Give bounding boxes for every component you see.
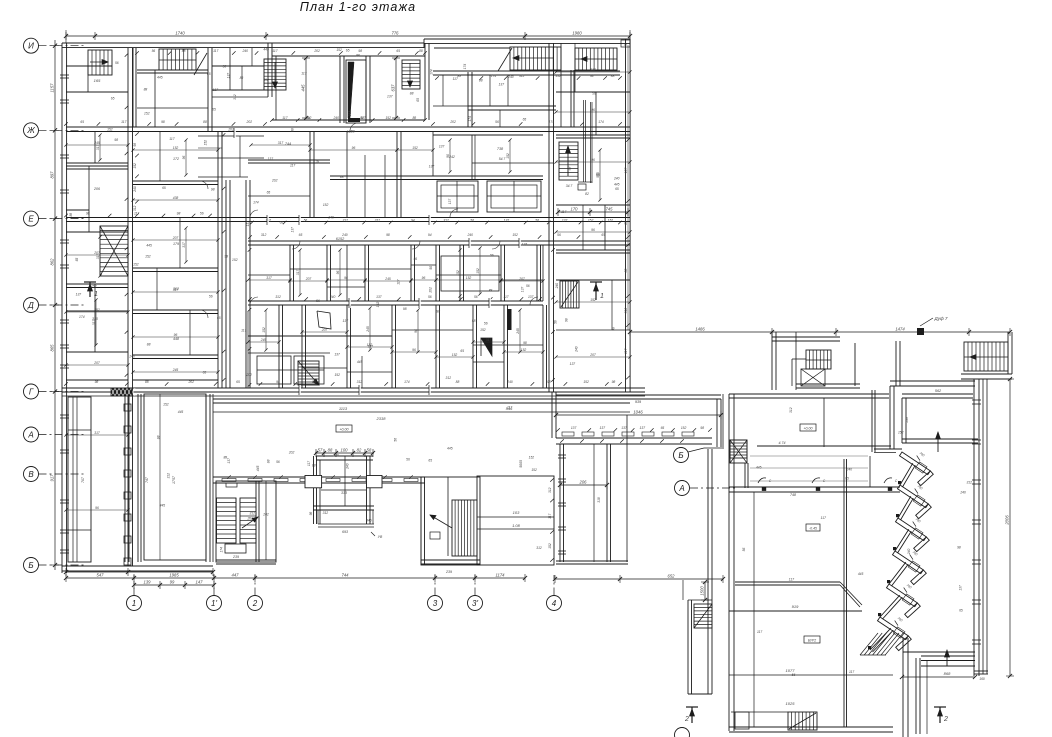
svg-text:УВ: УВ xyxy=(378,535,383,539)
svg-text:445: 445 xyxy=(447,446,453,450)
svg-text:98: 98 xyxy=(161,120,165,124)
svg-text:165: 165 xyxy=(94,78,101,83)
svg-text:152: 152 xyxy=(456,270,460,276)
svg-text:56: 56 xyxy=(209,295,213,299)
sawtooth tooth 1 side wall xyxy=(918,471,934,486)
south rooms 3-4 xyxy=(477,476,554,565)
stair S1 top-left xyxy=(88,50,112,75)
big room A with vertical dim xyxy=(272,55,425,57)
pavilion lower part xyxy=(317,510,319,524)
svg-text:776: 776 xyxy=(392,31,400,36)
sawtooth tooth 5 column xyxy=(878,613,881,616)
svg-text:117: 117 xyxy=(561,210,566,214)
svg-text:447: 447 xyxy=(232,573,240,578)
svg-text:137: 137 xyxy=(958,585,962,591)
wall axis 1 vertical xyxy=(127,48,129,566)
svg-text:В: В xyxy=(28,470,34,479)
sawtooth tooth 1 column xyxy=(898,481,901,484)
south bottom dim lines xyxy=(66,577,525,579)
svg-text:Е: Е xyxy=(28,214,34,223)
main block west wall xyxy=(728,394,730,731)
svg-text:96: 96 xyxy=(174,333,178,337)
svg-text:245: 245 xyxy=(172,368,179,372)
svg-text:56: 56 xyxy=(592,91,596,95)
svg-text:137: 137 xyxy=(571,426,577,430)
svg-text:137: 137 xyxy=(268,157,274,161)
axis bubble 1' xyxy=(207,596,222,611)
svg-text:202: 202 xyxy=(288,451,295,455)
svg-text:65: 65 xyxy=(207,72,211,76)
svg-text:96: 96 xyxy=(352,146,356,150)
stair S9 right column xyxy=(560,281,579,308)
right wing top dim line xyxy=(630,331,1010,333)
svg-text:202: 202 xyxy=(305,116,312,120)
svg-text:174: 174 xyxy=(253,201,259,205)
svg-text:137: 137 xyxy=(343,319,349,323)
rooms x433..543 band2 walls xyxy=(433,134,543,136)
svg-text:152: 152 xyxy=(588,218,594,222)
svg-text:152: 152 xyxy=(506,153,510,159)
svg-text:240: 240 xyxy=(346,463,350,470)
svg-text:88: 88 xyxy=(144,88,148,92)
svg-text:445: 445 xyxy=(146,244,152,248)
stair S4 in room B corner xyxy=(402,60,420,89)
right column dim line x628 xyxy=(627,45,629,330)
svg-text:56: 56 xyxy=(557,233,561,237)
svg-text:240: 240 xyxy=(575,346,579,353)
svg-text:117: 117 xyxy=(757,630,762,634)
svg-text:137: 137 xyxy=(521,287,525,293)
svg-text:98: 98 xyxy=(86,211,90,215)
svg-text:88: 88 xyxy=(456,380,460,384)
south window band 1'-3 xyxy=(213,476,425,478)
section mark 2 left xyxy=(691,707,693,723)
svg-text:438: 438 xyxy=(173,196,179,200)
svg-text:88: 88 xyxy=(567,167,571,171)
svg-text:312: 312 xyxy=(249,512,255,516)
svg-text:174: 174 xyxy=(598,120,604,124)
svg-text:152: 152 xyxy=(204,140,208,146)
svg-text:152: 152 xyxy=(262,327,266,333)
axis bubble А xyxy=(24,427,39,442)
NE room second wall xyxy=(902,393,973,395)
svg-text:240: 240 xyxy=(466,233,473,237)
wall y611 xyxy=(729,610,862,612)
axis bubble A (right wing) xyxy=(675,481,690,496)
svg-text:65: 65 xyxy=(396,49,400,53)
svg-text:98: 98 xyxy=(523,341,527,345)
svg-text:56: 56 xyxy=(742,548,746,552)
svg-text:65: 65 xyxy=(236,380,240,384)
svg-text:207: 207 xyxy=(321,328,328,332)
svg-text:88: 88 xyxy=(182,49,186,53)
svg-text:240: 240 xyxy=(959,491,966,495)
svg-text:65: 65 xyxy=(523,118,527,122)
axis bubble B (right wing) xyxy=(674,448,689,463)
dark wall bar band4 xyxy=(507,309,512,330)
svg-text:137: 137 xyxy=(227,458,231,464)
svg-text:98: 98 xyxy=(565,318,569,322)
svg-text:3': 3' xyxy=(472,599,478,608)
svg-text:98: 98 xyxy=(177,211,181,215)
wall axis 4 vertical xyxy=(548,43,550,392)
svg-text:98: 98 xyxy=(309,512,313,516)
svg-text:137: 137 xyxy=(334,353,340,357)
svg-text:96: 96 xyxy=(591,158,595,162)
svg-text:1: 1 xyxy=(600,293,604,300)
svg-text:240: 240 xyxy=(332,453,339,457)
stair SA lower flight with cross xyxy=(801,369,825,386)
svg-text:103: 103 xyxy=(513,510,520,515)
arrow up at y440 xyxy=(937,432,939,452)
svg-text:56: 56 xyxy=(429,266,433,270)
svg-text:939: 939 xyxy=(635,400,642,404)
small rooms x212..264 xyxy=(212,65,264,67)
corridor second wall below E xyxy=(248,240,630,242)
svg-text:317: 317 xyxy=(486,338,492,342)
svg-text:117: 117 xyxy=(169,137,174,141)
axis bubble И xyxy=(24,38,39,53)
svg-text:152: 152 xyxy=(548,543,552,549)
svg-text:+0.00: +0.00 xyxy=(803,427,812,431)
svg-text:БУР2: БУР2 xyxy=(808,639,816,643)
svg-text:А: А xyxy=(678,484,684,493)
svg-text:65: 65 xyxy=(212,108,216,112)
sawtooth tooth 1 dim tick and label xyxy=(917,456,920,461)
svg-text:139: 139 xyxy=(144,580,152,585)
section mark 1 right xyxy=(595,282,597,300)
svg-text:58: 58 xyxy=(367,448,372,453)
sawtooth tooth 4 side wall xyxy=(911,570,927,585)
amphitheater steps xyxy=(757,445,891,447)
svg-text:98: 98 xyxy=(547,380,551,384)
sawtooth tooth 6 dim tick and label xyxy=(895,621,898,626)
svg-text:88: 88 xyxy=(312,463,316,467)
svg-text:240: 240 xyxy=(327,215,334,219)
svg-text:160: 160 xyxy=(979,677,985,681)
corridor E dim row xyxy=(248,235,252,239)
svg-text:174: 174 xyxy=(468,116,472,122)
svg-text:206: 206 xyxy=(579,480,588,485)
svg-text:56: 56 xyxy=(393,438,397,442)
svg-text:917: 917 xyxy=(50,474,55,482)
svg-text:56: 56 xyxy=(553,320,557,324)
svg-text:240: 240 xyxy=(506,380,513,384)
outer wall top xyxy=(62,42,424,44)
svg-text:98: 98 xyxy=(403,307,407,311)
svg-text:172: 172 xyxy=(173,157,179,161)
axis bubble 1 xyxy=(127,596,142,611)
svg-text:96: 96 xyxy=(95,506,99,510)
band3 room partitions xyxy=(289,245,291,301)
svg-text:738: 738 xyxy=(497,147,504,151)
svg-text:65: 65 xyxy=(959,608,963,612)
svg-text:137: 137 xyxy=(376,295,382,299)
svg-text:312: 312 xyxy=(342,218,348,222)
axis bubble Б xyxy=(24,558,39,573)
svg-text:202: 202 xyxy=(449,120,456,124)
svg-text:117: 117 xyxy=(241,329,246,333)
sawtooth tooth 1 window slab xyxy=(900,452,931,475)
svg-text:88: 88 xyxy=(147,343,151,347)
svg-text:98: 98 xyxy=(436,310,440,314)
svg-text:56: 56 xyxy=(413,257,417,261)
svg-text:88: 88 xyxy=(316,160,320,164)
svg-text:207: 207 xyxy=(93,361,100,365)
ventilation block 2 xyxy=(487,181,541,212)
svg-text:333: 333 xyxy=(341,491,347,495)
svg-text:1.08: 1.08 xyxy=(512,523,521,528)
band4 horizontals xyxy=(248,335,392,337)
svg-text:65: 65 xyxy=(624,221,628,225)
sawtooth tooth 4 dim tick and label xyxy=(910,555,913,560)
svg-text:96: 96 xyxy=(422,276,426,280)
svg-text:445: 445 xyxy=(263,47,269,51)
svg-text:117: 117 xyxy=(507,406,512,410)
svg-text:117: 117 xyxy=(548,513,552,518)
svg-text:4: 4 xyxy=(552,599,557,608)
svg-text:56: 56 xyxy=(223,64,227,68)
svg-text:57: 57 xyxy=(318,448,323,453)
svg-text:137: 137 xyxy=(429,164,435,168)
sawtooth tooth 3 back wall xyxy=(895,529,909,551)
svg-text:98: 98 xyxy=(358,49,362,53)
svg-text:179: 179 xyxy=(173,242,179,246)
right wing interior verticals xyxy=(823,398,825,447)
corridor wall axis E xyxy=(66,217,630,219)
ventilation block 1 xyxy=(437,181,478,212)
svg-text:152: 152 xyxy=(385,116,391,120)
svg-text:202: 202 xyxy=(313,49,320,53)
svg-text:117: 117 xyxy=(396,279,400,284)
axis bubble Г xyxy=(24,384,39,399)
svg-text:693: 693 xyxy=(342,530,348,534)
NW stairwell of main block xyxy=(730,440,747,463)
rooms x135..218 stack xyxy=(133,180,218,182)
pavilion mid room xyxy=(321,489,366,491)
svg-text:174: 174 xyxy=(522,243,528,247)
rooms x433..543 upper xyxy=(433,70,620,72)
svg-text:152: 152 xyxy=(466,276,472,280)
right wing stair block A walls xyxy=(771,332,773,390)
room bottoms band A/B xyxy=(272,119,425,121)
section mark 2 right xyxy=(939,707,941,723)
band3 horizontals xyxy=(290,268,411,270)
svg-text:88: 88 xyxy=(356,53,360,57)
svg-text:152: 152 xyxy=(452,353,458,357)
svg-text:202: 202 xyxy=(271,179,278,183)
svg-text:139: 139 xyxy=(905,417,909,423)
svg-text:445: 445 xyxy=(160,503,166,507)
svg-text:65: 65 xyxy=(80,120,84,124)
wing north wall xyxy=(556,394,721,396)
svg-text:445: 445 xyxy=(178,410,184,414)
band2 right room partitions xyxy=(471,135,473,179)
svg-text:117: 117 xyxy=(821,516,826,520)
interior room dimension lines xyxy=(66,144,128,146)
svg-text:445: 445 xyxy=(301,84,306,92)
svg-text:445: 445 xyxy=(357,360,363,364)
label BUR2 xyxy=(804,636,820,643)
svg-text:56: 56 xyxy=(115,61,119,65)
svg-text:100: 100 xyxy=(341,448,349,453)
svg-text:117: 117 xyxy=(307,461,311,466)
svg-text:152: 152 xyxy=(173,146,179,150)
svg-text:240: 240 xyxy=(133,186,137,193)
svg-text:65: 65 xyxy=(267,190,271,194)
svg-text:152: 152 xyxy=(583,380,589,384)
sawtooth tooth 4 column xyxy=(887,580,890,583)
svg-text:152: 152 xyxy=(529,456,535,460)
axis bubble 2 xyxy=(248,596,263,611)
svg-text:98: 98 xyxy=(211,187,215,191)
svg-text:207: 207 xyxy=(305,277,312,281)
svg-text:152: 152 xyxy=(334,373,340,377)
svg-text:312: 312 xyxy=(263,78,269,82)
right column rooms xyxy=(556,91,630,93)
central pavilion walls xyxy=(313,456,315,524)
right wing vertical dim x1004 xyxy=(1009,379,1011,676)
mid rooms band2 xyxy=(309,131,311,218)
svg-text:Б: Б xyxy=(678,451,683,460)
svg-text:65: 65 xyxy=(615,187,619,191)
svg-text:88: 88 xyxy=(203,120,207,124)
svg-text:88: 88 xyxy=(360,116,364,120)
small rooms cluster band4 xyxy=(257,356,291,384)
svg-text:245: 245 xyxy=(516,328,520,335)
flag label Duf7 xyxy=(917,328,924,335)
svg-text:865: 865 xyxy=(50,344,55,352)
svg-text:54.7: 54.7 xyxy=(499,157,506,161)
sawtooth tooth 2 back wall xyxy=(898,496,911,518)
svg-text:88: 88 xyxy=(328,448,333,453)
svg-text:1025: 1025 xyxy=(786,701,796,706)
axis bubble Е xyxy=(24,211,39,226)
left rooms x66..128 band2 xyxy=(66,162,128,164)
svg-text:1985: 1985 xyxy=(169,573,179,578)
svg-text:240: 240 xyxy=(555,283,559,290)
svg-text:312: 312 xyxy=(275,295,281,299)
stair S3 (down arrow) xyxy=(264,59,286,90)
wall axis 1' south xyxy=(205,394,207,562)
corridor wall axis Zh xyxy=(66,126,630,128)
svg-text:240: 240 xyxy=(128,355,135,359)
sawtooth tooth 2 window slab xyxy=(898,485,929,508)
svg-text:56: 56 xyxy=(316,299,320,303)
svg-text:56: 56 xyxy=(484,322,488,326)
svg-text:88: 88 xyxy=(479,79,483,83)
main block north wall xyxy=(729,393,889,395)
svg-text:88: 88 xyxy=(596,173,600,177)
wall vertical x208 upper band xyxy=(207,48,209,131)
svg-text:117: 117 xyxy=(290,163,295,167)
black wedge (ramp) xyxy=(346,60,366,123)
svg-text:202: 202 xyxy=(262,513,269,517)
svg-text:445: 445 xyxy=(157,75,163,79)
stair S7 railing lines xyxy=(583,100,585,182)
big room B with vertical dim xyxy=(395,58,397,118)
left margin dimension line xyxy=(54,40,56,570)
svg-text:174: 174 xyxy=(463,64,467,70)
svg-text:137: 137 xyxy=(624,168,628,174)
svg-text:13: 13 xyxy=(624,43,628,47)
svg-text:82: 82 xyxy=(585,192,589,196)
bottom stair main block xyxy=(788,712,817,730)
right wing southeast walls xyxy=(921,651,975,653)
svg-text:897: 897 xyxy=(50,171,55,179)
corridor wall axis D xyxy=(248,300,543,302)
axis bubble 3' xyxy=(468,596,483,611)
sawtooth bottom diagonal stair xyxy=(860,633,878,655)
stair S5 wide top xyxy=(510,47,561,70)
axis4 wall continuation into wing xyxy=(551,392,553,438)
sawtooth tooth 5 dim tick and label xyxy=(904,588,907,593)
svg-text:88: 88 xyxy=(266,459,270,463)
svg-text:117: 117 xyxy=(213,49,218,53)
svg-text:240: 240 xyxy=(329,295,336,299)
svg-text:137: 137 xyxy=(76,293,82,297)
svg-text:744: 744 xyxy=(285,142,291,146)
svg-text:312: 312 xyxy=(348,111,352,117)
svg-text:152: 152 xyxy=(145,254,151,258)
svg-text:96: 96 xyxy=(591,108,595,112)
svg-text:6152: 6152 xyxy=(336,237,345,241)
sawtooth tooth 2 column xyxy=(896,514,899,517)
svg-text:34.7: 34.7 xyxy=(566,184,573,188)
svg-text:240: 240 xyxy=(907,549,911,556)
svg-text:2338: 2338 xyxy=(376,416,387,421)
dim 1500 vertical xyxy=(704,582,706,600)
band3 left rooms x135..218 xyxy=(133,267,218,269)
svg-text:82: 82 xyxy=(357,448,362,453)
svg-text:745: 745 xyxy=(606,207,614,212)
svg-text:117: 117 xyxy=(453,77,458,81)
svg-text:152: 152 xyxy=(476,268,480,274)
sawtooth tooth 6 side wall xyxy=(896,636,912,651)
wall x425 xyxy=(424,43,426,120)
svg-text:312: 312 xyxy=(375,218,381,222)
svg-text:312: 312 xyxy=(233,94,237,100)
wall stubs and door openings xyxy=(234,128,236,138)
svg-text:318: 318 xyxy=(597,497,601,503)
wall x366 xyxy=(365,56,367,123)
sawtooth tooth 3 column xyxy=(893,547,896,550)
svg-text:445: 445 xyxy=(614,182,620,186)
svg-text:1113: 1113 xyxy=(339,406,348,411)
top-right stair xyxy=(964,342,1008,371)
checkered pattern block at G xyxy=(111,388,132,396)
top dim row inside xyxy=(135,51,139,55)
svg-text:202: 202 xyxy=(227,128,234,132)
svg-text:312: 312 xyxy=(166,473,170,479)
svg-text:312: 312 xyxy=(966,481,972,485)
svg-text:98: 98 xyxy=(133,143,137,147)
svg-text:117: 117 xyxy=(272,49,277,53)
room below wing xyxy=(559,444,561,562)
svg-text:152: 152 xyxy=(521,348,527,352)
axis bubble 3 xyxy=(428,596,443,611)
tick cols along walls xyxy=(222,133,226,137)
svg-text:65: 65 xyxy=(416,98,420,102)
svg-text:2: 2 xyxy=(684,716,689,723)
svg-text:202: 202 xyxy=(245,373,252,377)
svg-text:152: 152 xyxy=(412,146,418,150)
courtyard level label xyxy=(336,425,352,432)
svg-text:Б: Б xyxy=(28,561,33,570)
section mark 1 left xyxy=(89,282,91,297)
svg-text:88: 88 xyxy=(290,128,294,132)
svg-text:202: 202 xyxy=(429,287,433,294)
